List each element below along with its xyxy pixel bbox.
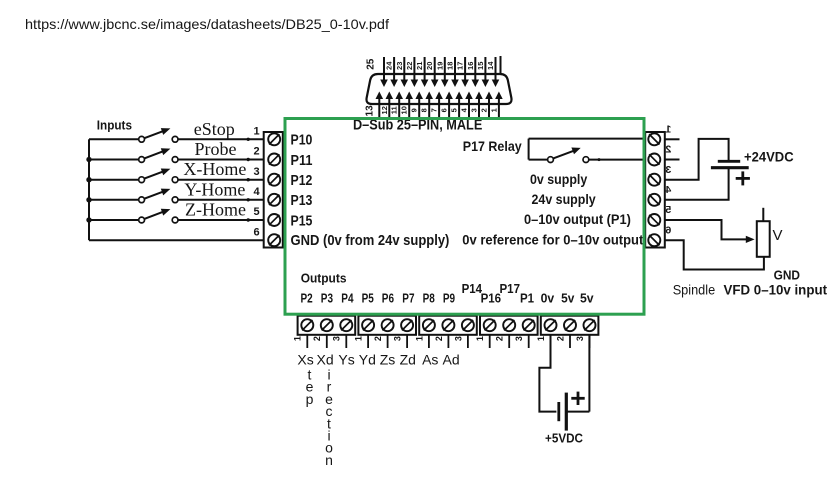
svg-text:Spindle: Spindle [673,281,716,297]
svg-text:3: 3 [332,336,342,341]
svg-text:P3: P3 [321,292,333,306]
svg-text:4: 4 [665,184,671,196]
svg-text:3: 3 [392,336,402,341]
svg-text:2: 2 [495,336,505,341]
svg-text:Xd: Xd [317,352,334,368]
svg-text:P7: P7 [402,292,414,306]
svg-text:0–10v output (P1): 0–10v output (P1) [524,212,631,227]
svg-text:p: p [306,391,314,407]
svg-text:n: n [325,452,333,468]
svg-text:P8: P8 [423,292,435,306]
svg-text:P12: P12 [291,173,313,189]
svg-text:0v supply: 0v supply [530,172,588,187]
svg-text:3: 3 [575,336,585,341]
svg-text:6: 6 [665,224,671,236]
svg-text:12: 12 [380,106,389,114]
svg-text:25: 25 [366,58,377,70]
svg-text:Zd: Zd [400,352,416,368]
svg-text:GND (0v from 24v supply): GND (0v from 24v supply) [291,233,450,249]
svg-text:X-Home: X-Home [183,159,246,179]
svg-text:10: 10 [400,106,409,114]
svg-text:Zs: Zs [380,352,396,368]
svg-text:P15: P15 [291,213,313,229]
svg-text:1: 1 [475,336,485,341]
svg-text:https://www.jbcnc.se/images/da: https://www.jbcnc.se/images/datasheets/D… [25,16,389,32]
svg-text:P6: P6 [382,292,394,306]
svg-text:11: 11 [390,106,399,114]
svg-text:14: 14 [486,61,495,70]
svg-text:5v: 5v [580,292,594,306]
svg-text:0v reference for 0–10v output: 0v reference for 0–10v output [462,233,643,248]
svg-text:5v: 5v [561,292,574,306]
svg-text:3: 3 [453,336,463,341]
svg-text:2: 2 [555,336,565,341]
svg-text:Probe: Probe [195,139,237,159]
svg-text:P17 Relay: P17 Relay [463,138,522,154]
svg-text:Ad: Ad [443,352,460,368]
svg-text:1: 1 [353,336,363,341]
svg-text:1: 1 [489,108,498,112]
svg-text:P11: P11 [291,153,313,169]
svg-text:1: 1 [536,336,546,341]
svg-text:P16: P16 [481,292,502,306]
svg-text:Yd: Yd [359,352,376,368]
svg-text:P9: P9 [443,292,455,306]
svg-text:VFD 0–10v input: VFD 0–10v input [724,281,828,297]
svg-text:20: 20 [425,62,434,70]
svg-text:P1: P1 [520,292,534,306]
svg-text:13: 13 [365,105,376,117]
svg-text:+5VDC: +5VDC [545,431,584,446]
svg-text:4: 4 [254,186,261,198]
svg-text:5: 5 [450,108,459,112]
svg-text:3: 3 [665,164,671,176]
svg-text:9: 9 [410,108,419,112]
svg-text:1: 1 [254,125,260,137]
svg-text:Y-Home: Y-Home [184,179,245,199]
svg-text:2: 2 [254,146,260,158]
svg-text:+24VDC: +24VDC [744,148,794,164]
svg-text:2: 2 [312,336,322,341]
svg-text:24: 24 [385,61,394,70]
svg-text:15: 15 [476,62,485,70]
svg-text:1: 1 [414,336,424,341]
svg-text:2: 2 [665,144,671,156]
svg-text:18: 18 [445,62,454,70]
svg-text:P2: P2 [301,292,313,306]
svg-text:8: 8 [420,108,429,112]
svg-text:P10: P10 [291,133,313,149]
svg-text:3: 3 [254,166,260,178]
svg-text:2: 2 [373,336,383,341]
svg-text:P14: P14 [462,282,483,296]
svg-text:3: 3 [469,108,478,112]
svg-text:As: As [422,352,438,368]
svg-text:P17: P17 [500,282,521,296]
svg-text:2: 2 [434,336,444,341]
svg-text:16: 16 [466,62,475,70]
svg-text:Z-Home: Z-Home [185,200,246,220]
svg-text:5: 5 [254,206,260,218]
svg-text:Xs: Xs [297,352,313,368]
svg-text:eStop: eStop [194,119,235,139]
svg-text:6: 6 [440,108,449,112]
svg-text:V: V [773,227,783,244]
svg-text:5: 5 [665,204,671,216]
svg-text:2: 2 [479,108,488,112]
svg-text:17: 17 [456,62,465,70]
svg-text:P5: P5 [362,292,374,306]
svg-text:P13: P13 [291,193,313,209]
svg-text:6: 6 [254,226,260,238]
svg-text:Ys: Ys [338,352,354,368]
svg-text:Inputs: Inputs [97,119,132,133]
svg-text:1: 1 [293,336,303,341]
svg-text:Outputs: Outputs [301,271,347,286]
svg-text:21: 21 [415,62,424,70]
svg-text:P4: P4 [341,292,353,306]
svg-text:1: 1 [665,123,671,135]
svg-text:0v: 0v [541,292,555,306]
svg-text:22: 22 [405,62,414,70]
svg-text:24v supply: 24v supply [532,192,597,207]
svg-text:3: 3 [514,336,524,341]
svg-text:19: 19 [435,62,444,70]
svg-text:23: 23 [395,62,404,70]
svg-text:7: 7 [430,108,439,112]
